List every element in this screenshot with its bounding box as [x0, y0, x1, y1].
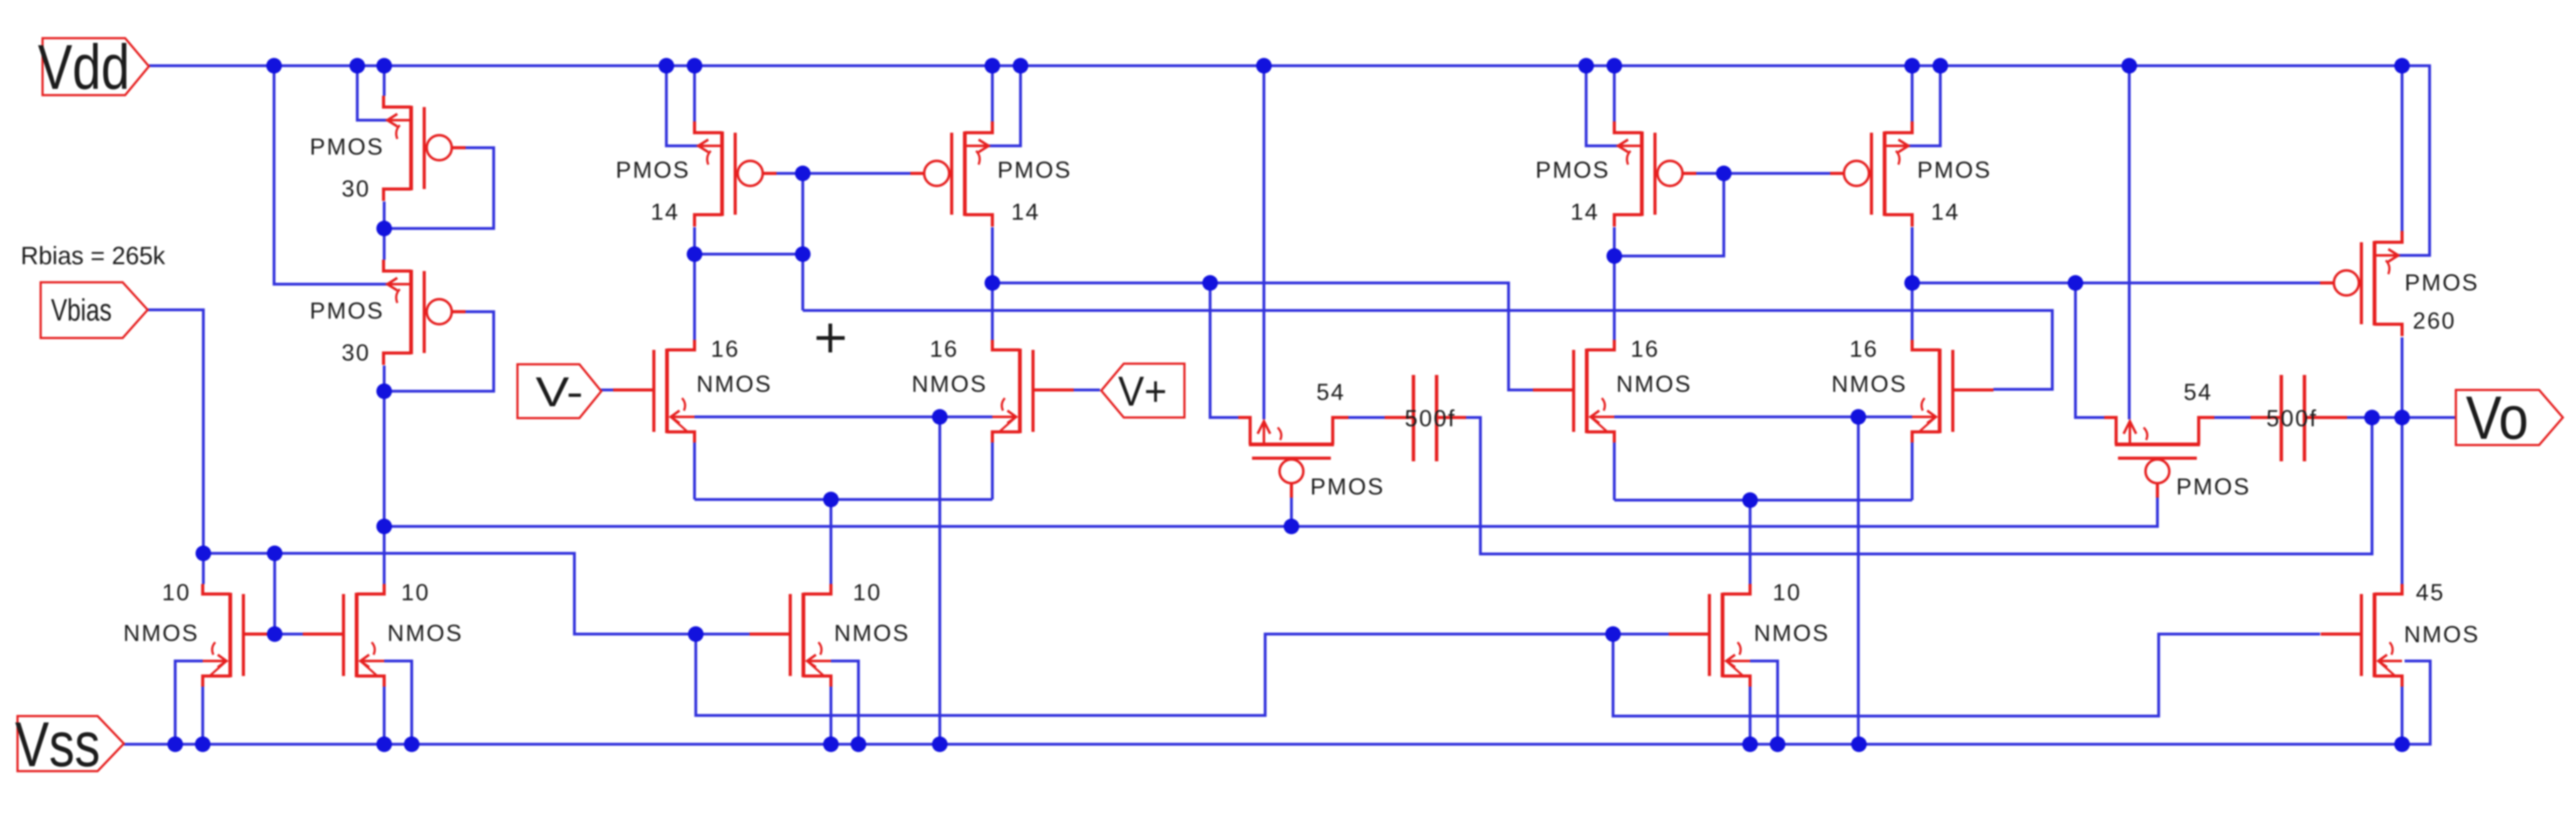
svg-text:10: 10 [1773, 580, 1801, 605]
svg-text:NMOS: NMOS [834, 620, 910, 646]
wire NMOS10b bulk to Vss [384, 661, 412, 744]
transistor NMOS 45 output (M18) [2321, 584, 2402, 687]
junction Vdd rail x=2020 [1256, 58, 1272, 74]
transistor PMOS 14 stage-B right (M12) [1830, 121, 1912, 227]
wire Vss rail [124, 661, 2430, 744]
junction mirror drain node A left [687, 247, 703, 262]
wire Vdd to PMOS14a2 bulk [989, 66, 1021, 146]
svg-text:16: 16 [1631, 336, 1659, 362]
wire Vdd to PMOS30a source [383, 66, 386, 96]
junction diff A tail node [823, 492, 839, 508]
transistor NMOS 10 stage-A tail (M9) [750, 584, 831, 687]
junction Vbias node 2 [267, 546, 283, 561]
wire NMOS16 bulk row B [1614, 416, 1912, 419]
junction Vss rail x=2971 [1851, 737, 1867, 752]
MOS capacitor PMOS 54 cap A (M10) [1238, 417, 1348, 498]
junction output node right [2395, 410, 2410, 426]
port Vbias [41, 282, 148, 338]
wire mirror gate link [275, 553, 303, 634]
wire output node to Vo [2372, 416, 2456, 419]
wire bulk row B to Vss [1857, 417, 1860, 744]
svg-text:30: 30 [342, 340, 370, 366]
junction Vdd rail x=3403 [2122, 58, 2137, 74]
port V- [517, 364, 601, 418]
svg-text:14: 14 [651, 199, 680, 225]
wire node to PMOS30b source [383, 228, 386, 260]
transistor PMOS 14 stage-B left (M11) [1614, 121, 1696, 227]
wire Vdd to PMOS14a1 bulk [666, 66, 698, 146]
junction tail A gate node [688, 627, 704, 642]
wire PMOS30b gate-drain tie [384, 312, 494, 391]
junction tail B gate node [1606, 627, 1621, 642]
transistor NMOS 10 mirror left (M3) [203, 584, 273, 687]
svg-text:PMOS: PMOS [1917, 157, 1992, 183]
wire tail A gate [696, 633, 750, 636]
wire PMOS30b drain to node [383, 366, 386, 391]
svg-text:260: 260 [2413, 308, 2456, 334]
wire Vdd to PMOS14b2 bulk [1908, 66, 1940, 146]
wire V- to NMOS16a1 gate [599, 389, 614, 392]
port Vdd [38, 33, 150, 103]
svg-text:Vdd: Vdd [38, 33, 130, 103]
svg-text:14: 14 [1011, 199, 1040, 225]
wire Vdd rail [149, 66, 2430, 255]
wire stage A output [992, 283, 1533, 390]
wire NMOS16a1 source [693, 442, 696, 499]
wire cap500B left lead [2251, 416, 2281, 419]
capacitor 500f cap A (C1) [1413, 375, 1437, 461]
wire stage A out vertical [991, 227, 994, 340]
junction Vss rail x=280 [168, 737, 183, 752]
wire stage B out vertical [1911, 227, 1914, 340]
junction Vss rail x=2797 [1743, 737, 1758, 752]
transistor PMOS 260 output (M17) [2320, 231, 2402, 336]
wire PMOS14a1 drain row [693, 227, 696, 340]
svg-text:500f: 500f [1405, 406, 1456, 431]
wire Vbias port wire [148, 310, 203, 553]
svg-text:500f: 500f [2266, 406, 2318, 431]
wire cap54B to cap500B [2214, 416, 2251, 419]
MOS capacitor PMOS 54 cap B (M16) [2104, 417, 2214, 498]
junction bias rail tap left [377, 519, 392, 535]
wire diff B source row [1614, 499, 1912, 502]
wire PMOS260 drain to out [2401, 337, 2404, 417]
wire diff A source row [695, 498, 992, 501]
svg-text:54: 54 [2184, 379, 2212, 405]
port Vss [15, 710, 124, 780]
svg-text:30: 30 [342, 176, 370, 202]
junction Vdd rail x=438 [267, 58, 282, 74]
svg-text:PMOS: PMOS [1310, 474, 1385, 499]
svg-text:V+: V+ [1118, 368, 1167, 415]
wire NMOS16 bulk row A [695, 416, 992, 419]
wire NMOS10a source to Vss [201, 687, 205, 744]
junction Vdd rail x=1586 [985, 58, 1000, 74]
transistor PMOS 14 stage-A right (M6) [910, 121, 992, 227]
junction bias diode node A [377, 221, 392, 237]
junction bias diode node B [377, 384, 392, 399]
svg-text:V-: V- [536, 369, 583, 416]
svg-text:Vbias: Vbias [51, 294, 112, 327]
wire NMOS10a drain to Vbias [202, 553, 205, 584]
wire mirror B gate bus [1696, 172, 1831, 175]
svg-text:54: 54 [1316, 379, 1345, 405]
svg-text:14: 14 [1931, 199, 1960, 225]
junction Vss rail x=324 [195, 737, 211, 752]
junction Vdd rail x=571 [350, 58, 365, 74]
transistor NMOS 10 stage-B tail (M15) [1669, 584, 1750, 687]
transistor NMOS 16 stage-A left (M7) [613, 340, 695, 443]
wire cap500A left lead [1385, 416, 1413, 419]
junction Vdd rail x=1110 [687, 58, 703, 74]
wire PMOS30a gate-drain tie [384, 148, 494, 228]
wire tail A drain [830, 499, 833, 584]
node marker + (non-inverting path) [817, 324, 845, 352]
wire PMOS30a drain to node [383, 202, 386, 228]
svg-text:NMOS: NMOS [1831, 371, 1907, 397]
junction mirror gate node A top [795, 166, 811, 182]
port V+ [1101, 364, 1184, 417]
wire Vbias drop B [1613, 634, 2320, 716]
junction cap54A gate tap [1284, 519, 1300, 535]
wire stage B output [1912, 282, 2321, 285]
svg-text:PMOS: PMOS [310, 298, 384, 324]
svg-text:Vo: Vo [2466, 384, 2528, 452]
capacitor 500f cap B (C2) [2281, 375, 2304, 461]
wire Vdd to PMOS14b1 source [1613, 66, 1616, 121]
wire Vbias to mirror gates [203, 553, 696, 634]
junction Vdd rail x=2580 [1607, 58, 1622, 74]
junction Vdd rail x=1631 [1013, 58, 1029, 74]
svg-text:PMOS: PMOS [616, 157, 690, 183]
junction Vdd rail x=1065 [659, 58, 675, 74]
wire Vdd to PMOS14b2 source [1911, 66, 1914, 121]
junction output node left [2365, 410, 2380, 426]
junction Vdd rail x=3839 [2395, 58, 2410, 74]
junction bulk row B tap [1851, 409, 1866, 425]
junction Vss rail x=1328 [823, 737, 839, 752]
wire mirror A gate bus [776, 172, 911, 175]
wire V+ to NMOS16a2 gate [1074, 389, 1100, 392]
wire Vbias drop A [696, 634, 1613, 715]
wire tail B gate [1613, 633, 1669, 636]
junction Vdd rail x=2535 [1579, 58, 1594, 74]
wire mirror B gate drop [1614, 173, 1724, 256]
junction Vdd rail x=3101 [1933, 58, 1948, 74]
junction mirror gate node B top [1716, 166, 1732, 182]
wire Vdd to PMOS30b bulk [274, 66, 388, 284]
wire tail B bulk to Vss [1750, 661, 1778, 744]
transistor NMOS 16 stage-A right (M8) [992, 340, 1074, 443]
junction diff B tail node [1743, 493, 1758, 508]
svg-text:PMOS: PMOS [1535, 157, 1610, 183]
svg-text:Rbias = 265k: Rbias = 265k [21, 242, 166, 270]
junction Vss rail x=1502 [932, 737, 948, 752]
wire tail B source to Vss [1749, 687, 1752, 744]
wire Vdd to PMOS260 source [2401, 66, 2404, 231]
wire cap500B to output node [2347, 416, 2372, 419]
svg-text:10: 10 [401, 580, 430, 605]
svg-text:NMOS: NMOS [2404, 622, 2480, 647]
junction Vdd rail x=3056 [1905, 58, 1920, 74]
wire Vdd to PMOS14b1 bulk [1586, 66, 1618, 146]
svg-text:NMOS: NMOS [387, 620, 463, 646]
svg-text:NMOS: NMOS [912, 371, 987, 397]
svg-text:NMOS: NMOS [123, 620, 199, 646]
svg-text:16: 16 [1850, 336, 1878, 362]
junction stage A out node [985, 275, 1000, 291]
wire Vdd to PMOS14a1 source [693, 66, 696, 121]
junction Vss rail x=3839 [2395, 737, 2410, 752]
wire NMOS10a gate stub [272, 633, 275, 636]
wire Vdd to cap54A bulk [1263, 66, 1266, 419]
junction Vdd rail x=614 [377, 58, 392, 74]
wire Vdd to PMOS30a bulk [357, 66, 388, 120]
wire NMOS45 source to Vss [2401, 687, 2404, 744]
transistor PMOS 30 lower (M2) [384, 260, 466, 365]
junction Vbias node 1 [196, 546, 211, 561]
wire mirror A to stage B gate [803, 310, 2052, 389]
svg-text:10: 10 [853, 580, 882, 605]
wire NMOS10b source to Vss [383, 687, 386, 744]
junction cap B tap node [2068, 275, 2084, 291]
wire mirror A gate drop [802, 173, 805, 310]
wire PMOS14b1 drain row [1613, 227, 1616, 340]
wire tail A source to Vss [830, 687, 833, 744]
wire mirror A diode row [695, 253, 803, 256]
wire cap500A to feedback [1466, 417, 2372, 554]
svg-text:PMOS: PMOS [2176, 474, 2251, 499]
wire NMOS16b2 source [1911, 442, 1914, 500]
wire cap500A right lead [1437, 416, 1466, 419]
junction Vss rail x=658 [404, 737, 420, 752]
wire NMOS16b1 source [1613, 442, 1616, 500]
svg-text:16: 16 [930, 336, 959, 362]
svg-text:14: 14 [1571, 199, 1599, 225]
svg-text:NMOS: NMOS [1754, 620, 1830, 646]
transistor PMOS 30 upper (M1) [384, 96, 466, 201]
junction mirror diode node B [1607, 248, 1622, 264]
wire NMOS10a bulk to Vss [175, 661, 203, 744]
svg-text:45: 45 [2416, 580, 2445, 605]
svg-text:10: 10 [162, 580, 191, 605]
wire cap500B right lead [2305, 416, 2347, 419]
wire bias rail [384, 498, 2157, 526]
junction bulk row A tap [932, 409, 948, 425]
svg-text:PMOS: PMOS [997, 157, 1072, 183]
transistor NMOS 10 mirror right (M4) [303, 584, 384, 687]
junction Vss rail x=2841 [1770, 737, 1786, 752]
svg-text:NMOS: NMOS [1616, 371, 1692, 397]
junction mirror gate junction [267, 627, 283, 642]
wire Vdd to PMOS14a2 source [991, 66, 994, 121]
wire node down to bias rail [383, 391, 386, 526]
junction stage B out node [1905, 275, 1920, 291]
junction mirror diode node A [795, 247, 811, 262]
wire cap54A to cap500A [1348, 416, 1385, 419]
transistor NMOS 16 stage-B right (M14) [1912, 340, 1993, 443]
wire out A to cap54A [1210, 283, 1238, 417]
junction cap A tap node [1203, 275, 1218, 291]
wire Vdd to cap54B bulk [2128, 66, 2131, 419]
svg-text:PMOS: PMOS [310, 134, 384, 160]
transistor NMOS 16 stage-B left (M13) [1533, 340, 1614, 443]
wire bulk row A to Vss [939, 417, 942, 744]
wire bias node to NMOS10b drain [383, 526, 386, 584]
junction Vss rail x=614 [377, 737, 392, 752]
svg-text:NMOS: NMOS [696, 371, 772, 397]
svg-text:16: 16 [711, 336, 740, 362]
port Vo [2456, 384, 2563, 452]
wire cap54A gate to bias rail [1290, 498, 1293, 526]
svg-text:Vss: Vss [15, 710, 100, 780]
wire tail A bulk to Vss [831, 661, 858, 744]
wire out B to cap54B [2075, 283, 2104, 417]
wire tail B drain [1749, 500, 1752, 584]
wire NMOS16a2 source [991, 442, 994, 499]
svg-text:PMOS: PMOS [2405, 270, 2479, 295]
junction Vss rail x=1372 [851, 737, 867, 752]
wire output node to NMOS45 drain [2401, 417, 2404, 584]
transistor PMOS 14 stage-A left (M5) [695, 121, 776, 227]
